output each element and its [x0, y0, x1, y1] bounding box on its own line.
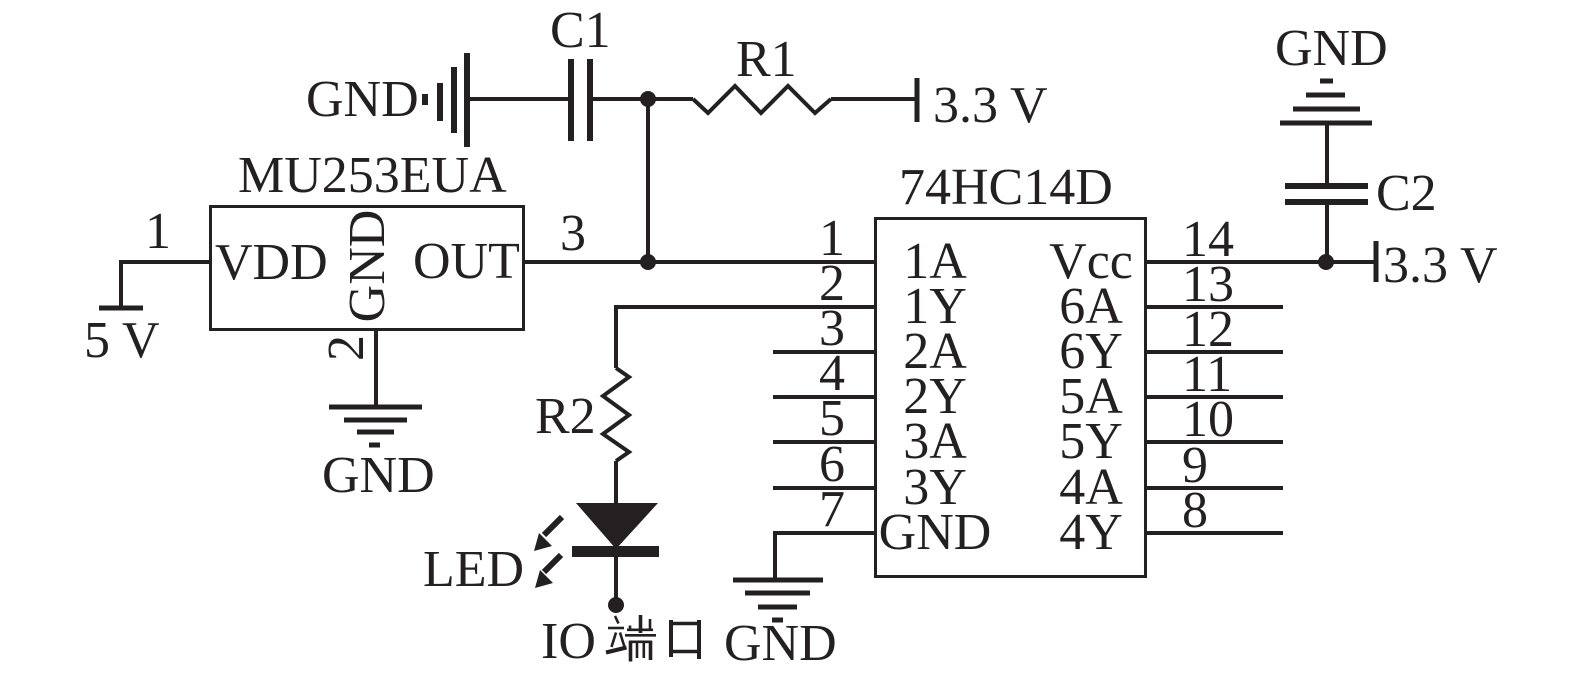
- IO terminal dot: [608, 597, 624, 613]
- svg-text:LED: LED: [423, 541, 524, 598]
- capacitor C1: [571, 59, 590, 141]
- wire C2 to node C: [1325, 202, 1329, 262]
- LED arrow 1: [544, 517, 562, 535]
- node A junction dot: [640, 91, 656, 107]
- svg-text:R2: R2: [535, 388, 596, 445]
- LED D1: [576, 503, 658, 549]
- svg-text:GND: GND: [1275, 20, 1388, 77]
- svg-text:2: 2: [318, 335, 375, 361]
- pin 2 wire (MU GND) down: [374, 330, 378, 406]
- wire C1 to node A: [593, 97, 693, 101]
- right pin numbers 14-8: [1182, 211, 1234, 539]
- pin 3 wire (2A) stub: [773, 350, 875, 354]
- node B junction dot: [640, 254, 656, 270]
- svg-text:GND: GND: [724, 615, 837, 672]
- svg-text:3.3 V: 3.3 V: [933, 77, 1048, 134]
- IC U2 74HC14D box: [876, 219, 1146, 577]
- left pin numbers 1-7: [819, 210, 845, 538]
- svg-text:GND: GND: [339, 210, 396, 323]
- node C junction dot: [1318, 254, 1334, 270]
- resistor R1: [693, 86, 831, 113]
- pin 3 wire (OUT) to 74HC14D pin 1: [524, 260, 875, 264]
- right inside pin labels: [1049, 233, 1133, 561]
- power terminal 5 V: [99, 306, 143, 311]
- svg-text:8: 8: [1182, 482, 1208, 539]
- svg-text:GND: GND: [306, 71, 419, 128]
- pin 2 wire (1Y) left then down to R2: [616, 307, 875, 368]
- svg-text:3.3 V: 3.3 V: [1383, 237, 1498, 294]
- svg-text:VDD: VDD: [215, 234, 328, 291]
- LED arrow 2: [544, 555, 561, 572]
- wire ground to C2: [1325, 123, 1329, 186]
- right stub wires pins 13-8: [1145, 305, 1283, 309]
- svg-text:C1: C1: [550, 2, 611, 59]
- IC U1 MU253EUA box: [211, 207, 524, 330]
- ground symbol (bottom middle): [733, 580, 823, 620]
- ground symbol (below MU253EUA): [329, 407, 422, 445]
- power terminal 3.3 V (right): [1374, 241, 1379, 282]
- svg-text:C2: C2: [1376, 165, 1437, 222]
- left inside pin labels: [879, 233, 992, 561]
- svg-text:GND: GND: [322, 447, 435, 504]
- capacitor C2: [1285, 186, 1368, 202]
- svg-text:IO: IO: [541, 613, 596, 670]
- power terminal 3.3 V (top): [915, 78, 920, 122]
- pin 14 wire (Vcc) to 3.3V: [1145, 260, 1374, 264]
- ground symbol (rotated, top left): [425, 53, 467, 147]
- svg-text:74HC14D: 74HC14D: [899, 159, 1113, 216]
- pin 4 wire (2Y) stub: [773, 395, 875, 399]
- wire down to 5V terminal: [119, 260, 123, 306]
- wire R2 to LED: [614, 461, 618, 506]
- pin 6 wire (3Y) stub: [773, 486, 875, 490]
- hanzi 口: [669, 620, 700, 659]
- wire node A down to pin1 row: [646, 99, 650, 262]
- svg-text:1: 1: [145, 203, 171, 260]
- pin 5 wire (3A) stub: [773, 440, 875, 444]
- svg-text:MU253EUA: MU253EUA: [238, 147, 507, 204]
- wire R1 to 3.3V: [831, 97, 915, 101]
- svg-text:OUT: OUT: [413, 233, 520, 290]
- svg-text:5 V: 5 V: [84, 312, 160, 369]
- wire LED to IO port: [614, 557, 618, 599]
- wire ground to C1: [470, 97, 568, 101]
- hanzi 端: [606, 615, 656, 662]
- svg-text:3: 3: [560, 205, 586, 262]
- ground symbol (top right, inverted): [1280, 81, 1372, 123]
- svg-text:GND: GND: [879, 504, 992, 561]
- svg-text:R1: R1: [736, 31, 797, 88]
- resistor R2: [603, 368, 629, 461]
- svg-text:4Y: 4Y: [1059, 504, 1123, 561]
- pin 1 wire (VDD): [121, 260, 210, 264]
- pin 7 wire (GND) left then down: [775, 533, 875, 580]
